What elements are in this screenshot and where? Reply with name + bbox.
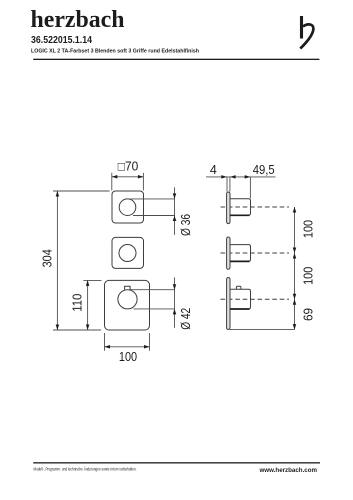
svg-text:69: 69 — [302, 308, 316, 321]
svg-text:□70: □70 — [118, 159, 139, 173]
centerline middle unit — [221, 252, 290, 254]
dim D42 tangent lines — [131, 289, 175, 291]
right chain dimension line — [294, 207, 296, 330]
dim 110 arrows — [86, 280, 90, 286]
front top knob — [119, 199, 136, 216]
herzbach h logo mark — [300, 16, 313, 49]
front bottom plate — [105, 280, 150, 330]
bottom knob bottom edge — [230, 308, 250, 310]
side bottom knob — [230, 289, 251, 309]
dim D36 line — [174, 187, 176, 235]
svg-text:herzbach: herzbach — [31, 7, 125, 33]
side top knob — [230, 199, 251, 216]
dim D42 line — [174, 277, 176, 327]
front temperature tab — [125, 286, 131, 290]
dim 304 arrows — [56, 191, 60, 197]
side centerlines (dashed) — [221, 207, 290, 299]
svg-text:110: 110 — [71, 294, 85, 312]
svg-text:www.herzbach.com: www.herzbach.com — [259, 467, 318, 474]
dim 100 extension lines — [104, 333, 106, 351]
dim D42 arrows — [173, 284, 177, 290]
extension plate faces — [226, 177, 228, 192]
centerline top unit — [221, 206, 290, 208]
footer rule — [33, 462, 320, 463]
top knob bottom edge — [230, 214, 250, 216]
dim 4/49.5 line — [206, 176, 276, 178]
side middle wall plate — [227, 237, 230, 269]
dim 49.5 arrow — [245, 175, 251, 179]
svg-text:100: 100 — [302, 220, 316, 238]
side dimension lines — [206, 177, 295, 330]
dim D36 arrows — [173, 193, 177, 199]
dim 100 line — [105, 346, 150, 348]
svg-text:Ø 36: Ø 36 — [179, 214, 193, 236]
svg-text:100: 100 — [302, 267, 316, 285]
extension knob front — [249, 177, 251, 199]
front bottom knob — [118, 290, 137, 309]
centerline bottom unit — [221, 298, 290, 300]
dim 110 top extension — [83, 279, 101, 281]
middle knob bottom edge — [230, 260, 250, 262]
dimension lines group — [53, 173, 175, 351]
dim 70 arrows — [112, 175, 118, 179]
side temperature tab — [236, 286, 241, 289]
dim 4 arrows — [221, 175, 227, 179]
dim D36 tangent lines — [131, 198, 175, 200]
svg-text:304: 304 — [41, 249, 55, 267]
dim 70 extension lines — [111, 173, 113, 191]
side dimension arrowheads — [221, 175, 296, 329]
front top plate — [112, 191, 144, 223]
svg-text:100: 100 — [119, 350, 137, 364]
chain arrows — [293, 207, 297, 213]
side bottom wall plate — [227, 278, 230, 330]
side knob bottom shading edges — [230, 215, 250, 309]
svg-text:Ø 42: Ø 42 — [179, 308, 193, 330]
front middle knob — [119, 245, 136, 262]
dim 100 arrows — [105, 345, 111, 349]
front middle plate — [112, 237, 144, 268]
svg-text:36.522015.1.14: 36.522015.1.14 — [31, 35, 92, 46]
bottom extension line — [230, 329, 295, 331]
svg-text:Modell-, Programm- und technis: Modell-, Programm- und technische Änderu… — [34, 466, 137, 471]
dim 70 line — [112, 176, 143, 178]
dim 304 top extension — [53, 190, 110, 192]
front dimension arrowheads — [56, 175, 177, 348]
svg-text:4: 4 — [210, 163, 217, 177]
front dimension labels — [41, 159, 194, 364]
side dimension labels — [210, 163, 316, 321]
svg-text:LOGIC XL 2 TA-Farbset 3 Blende: LOGIC XL 2 TA-Farbset 3 Blenden soft 3 G… — [31, 49, 199, 55]
svg-text:49,5: 49,5 — [253, 163, 275, 177]
dim 110 line — [87, 280, 89, 330]
side middle knob — [230, 245, 251, 262]
dim 304/110 bottom extension — [53, 329, 101, 331]
header rule — [33, 59, 319, 60]
side top wall plate — [227, 192, 230, 224]
dim 304 line — [56, 191, 58, 330]
